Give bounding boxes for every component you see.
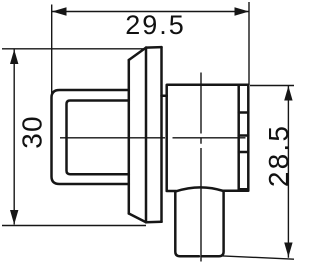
body right inner strip	[239, 86, 248, 189]
port right edge	[202, 192, 224, 257]
strip divider 3	[239, 151, 249, 154]
flange bottom slant	[129, 214, 146, 223]
flange front face	[129, 47, 162, 222]
arrowhead right of 29.5	[235, 7, 250, 15]
arrowhead top of 30	[10, 50, 18, 65]
arrowhead top of 28.5	[284, 86, 292, 101]
port left edge	[175, 192, 199, 257]
barrel chamfer inner line	[67, 101, 129, 175]
dimension line 28.5 (right)	[287, 86, 289, 258]
body right outer edge	[224, 85, 249, 191]
strip divider 1	[239, 111, 249, 114]
centerline horizontal (plug axis)	[60, 137, 246, 139]
strip divider 2	[239, 134, 249, 137]
extension line right (body right face)	[248, 2, 250, 85]
svg-text:29.5: 29.5	[125, 10, 186, 40]
flange top cap	[146, 46, 162, 49]
flange bottom cap	[146, 221, 162, 224]
flange back edge	[160, 47, 163, 222]
extension line bottom (port bottom)	[223, 256, 295, 259]
arrowhead bottom of 28.5	[284, 243, 292, 258]
flange front-right edge	[145, 48, 148, 223]
arrowhead left of 29.5	[52, 7, 67, 15]
extension line top (body top)	[250, 85, 294, 87]
svg-text:30: 30	[17, 115, 48, 149]
dimension line 30 (left)	[13, 50, 15, 225]
port outline	[175, 187, 223, 256]
body step behind flange	[162, 95, 167, 98]
extension line left (barrel front face)	[51, 5, 53, 94]
body outline	[167, 85, 249, 191]
extension line bottom (flange bottom)	[2, 225, 146, 227]
arrowhead bottom of 30	[10, 210, 18, 225]
dimension line 29.5 (top)	[52, 11, 249, 13]
plug barrel outline	[52, 90, 129, 184]
centerline vertical (port axis)	[200, 73, 202, 262]
flange top slant	[129, 48, 146, 60]
svg-text:28.5: 28.5	[263, 124, 294, 187]
port shoulder arc	[176, 187, 224, 191]
extension line top (flange top)	[2, 48, 145, 50]
body left edge	[167, 85, 249, 96]
